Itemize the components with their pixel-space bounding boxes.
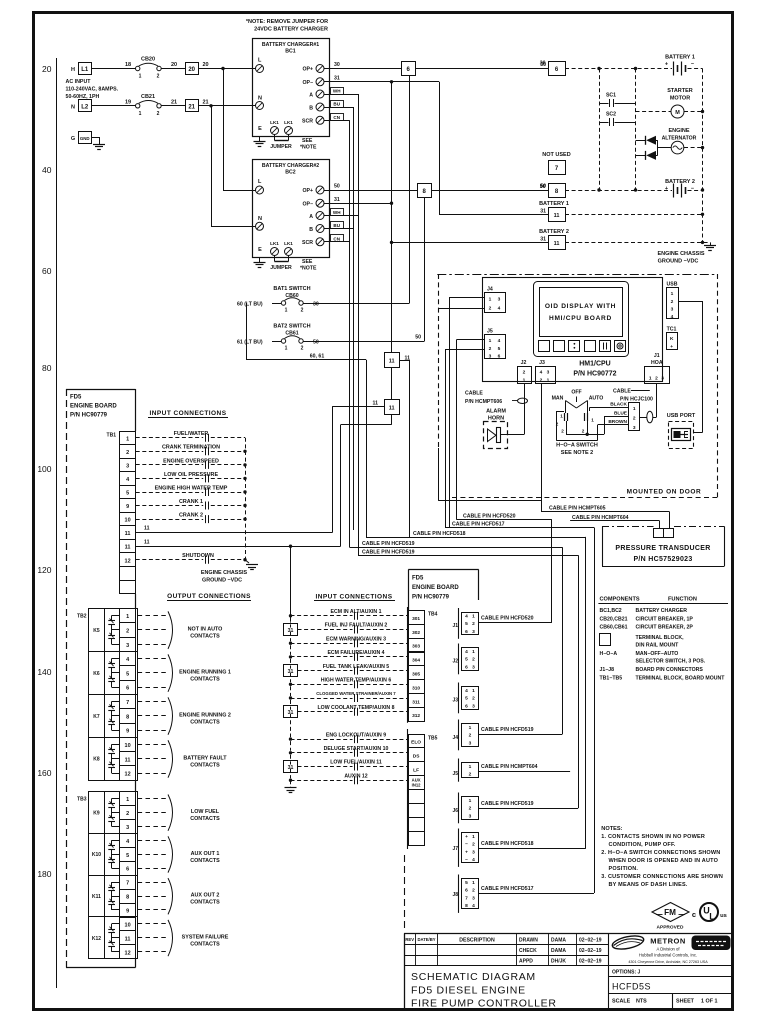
svg-text:USB: USB: [667, 282, 678, 288]
svg-text:B: B: [309, 227, 313, 233]
svg-text:ENGINE RUNNING 2: ENGINE RUNNING 2: [179, 712, 231, 718]
terminal block 7 not used: [542, 152, 570, 175]
svg-text:CABLE P/N HCMPT605: CABLE P/N HCMPT605: [549, 506, 606, 512]
svg-text:−: −: [691, 62, 694, 68]
terminal block TB5: [409, 735, 438, 846]
input wire FUEL INJ FAULT/AUXIN 2: [284, 623, 409, 636]
relay K8: [93, 744, 119, 773]
svg-text:5: 5: [126, 671, 129, 677]
svg-text:TC1: TC1: [667, 327, 677, 333]
svg-text:AC INPUT: AC INPUT: [66, 79, 92, 85]
svg-text:CABLE P/N HCFD519: CABLE P/N HCFD519: [362, 541, 415, 547]
contact bracket K11: [168, 878, 173, 914]
svg-text:DELUGE START/AUXIN 10: DELUGE START/AUXIN 10: [324, 746, 389, 752]
svg-text:311: 311: [412, 699, 420, 705]
svg-text:DS: DS: [413, 754, 420, 760]
svg-text:METRON: METRON: [650, 937, 686, 946]
svg-text:LK1: LK1: [284, 241, 293, 246]
svg-text:ALTERNATOR: ALTERNATOR: [662, 136, 697, 142]
svg-text:2: 2: [126, 811, 129, 817]
wire stub TB2 pin 9: [138, 730, 166, 732]
svg-text:*NOTE: *NOTE: [300, 266, 317, 272]
svg-text:310: 310: [412, 685, 420, 691]
svg-text:20: 20: [202, 62, 208, 68]
svg-text:LOW FUEL: LOW FUEL: [191, 809, 220, 815]
svg-text:50: 50: [540, 184, 546, 190]
terminal block TB2: [77, 608, 138, 780]
contact bracket K10: [168, 836, 173, 872]
svg-text:1: 1: [633, 406, 636, 412]
svg-text:H−O−A: H−O−A: [600, 651, 618, 657]
svg-text:12: 12: [125, 558, 131, 564]
svg-text:J7: J7: [452, 846, 458, 852]
wire L1 to CB20: [92, 68, 136, 70]
svg-text:WHEN DOOR IS OPENED AND IN AUT: WHEN DOOR IS OPENED AND IN AUTO: [609, 858, 719, 864]
svg-text:BATTERY CHARGER#1: BATTERY CHARGER#1: [262, 42, 319, 48]
wire BU BC2: [331, 222, 344, 229]
svg-text:OP−: OP−: [302, 201, 313, 207]
svg-text:3. CUSTOMER CONNECTIONS ARE SH: 3. CUSTOMER CONNECTIONS ARE SHOWN: [601, 874, 723, 880]
svg-text:ENGINE RUNNING 1: ENGINE RUNNING 1: [179, 669, 231, 675]
svg-text:L: L: [709, 912, 715, 922]
svg-text:5: 5: [498, 346, 501, 352]
svg-text:3: 3: [126, 463, 129, 469]
wire HOA left side loop (brown): [556, 411, 564, 413]
wire 30 to right: [415, 68, 548, 70]
svg-text:2: 2: [472, 842, 475, 848]
svg-text:ENGINE: ENGINE: [668, 128, 689, 134]
svg-text:CLOGGED WATER STRAINER/AUXIN 7: CLOGGED WATER STRAINER/AUXIN 7: [316, 691, 396, 696]
svg-text:305: 305: [412, 672, 420, 678]
svg-text:FUEL TANK LEAK/AUXIN 5: FUEL TANK LEAK/AUXIN 5: [323, 664, 389, 670]
terminal block 21: [186, 100, 199, 112]
svg-text:CABLE P/N HCFD519: CABLE P/N HCFD519: [481, 801, 534, 807]
svg-text:STARTER: STARTER: [667, 88, 693, 94]
svg-text:*NOTE: REMOVE JUMPER FOR: *NOTE: REMOVE JUMPER FOR: [246, 19, 328, 25]
svg-text:MAN: MAN: [552, 395, 564, 401]
svg-text:11: 11: [144, 526, 150, 532]
terminal block 20: [186, 63, 199, 75]
svg-text:OP−: OP−: [302, 80, 313, 86]
svg-text:180: 180: [37, 869, 51, 879]
terminal TB2 pin 7: [120, 695, 136, 709]
wire stub TB3 pin 10: [138, 923, 166, 925]
terminal TB2 pin 1: [120, 609, 136, 623]
terminal block TB3: [77, 792, 138, 959]
svg-text:J3: J3: [452, 698, 458, 704]
terminal TB2 pin 6: [120, 681, 136, 695]
pressure transducer: [602, 527, 725, 567]
svg-text:2: 2: [469, 733, 472, 739]
board edge TB5 bracket: [407, 729, 409, 849]
svg-text:SCALE: SCALE: [612, 999, 631, 1005]
terminal block 8 (left): [418, 184, 432, 198]
svg-text:6: 6: [465, 664, 468, 670]
input wire LOW OIL PRESSURE: [136, 472, 245, 483]
components/function table: [598, 597, 728, 682]
svg-text:4: 4: [472, 903, 475, 909]
ground BC1 E: [259, 136, 261, 141]
svg-text:20: 20: [42, 64, 52, 74]
svg-text:7: 7: [126, 700, 129, 706]
svg-text:3: 3: [547, 370, 550, 376]
svg-text:1: 1: [139, 74, 142, 80]
svg-text:J1: J1: [654, 353, 660, 359]
svg-text:G: G: [71, 136, 75, 142]
terminal TB3 pin 5: [120, 848, 136, 862]
svg-text:BY MEANS OF DASH LINES.: BY MEANS OF DASH LINES.: [609, 882, 688, 888]
svg-text:CABLE P/N HCMPT604: CABLE P/N HCMPT604: [481, 764, 538, 770]
svg-text:BROWN: BROWN: [608, 419, 627, 425]
selector switch H-O-A: [552, 389, 604, 433]
terminal TB3 pin 11: [120, 931, 136, 945]
terminal TB3 pin 7: [120, 876, 136, 890]
svg-text:BAT1 SWITCH: BAT1 SWITCH: [273, 286, 310, 292]
svg-text:1: 1: [469, 725, 472, 731]
svg-text:A Division of: A Division of: [656, 947, 680, 952]
svg-text:1: 1: [126, 797, 129, 803]
svg-text:2: 2: [126, 450, 129, 456]
svg-text:DATE/BY: DATE/BY: [417, 937, 435, 942]
svg-text:BU: BU: [333, 102, 340, 107]
svg-text:ENGINE CHASSIS: ENGINE CHASSIS: [201, 570, 248, 576]
svg-text:CRANK 1: CRANK 1: [179, 499, 203, 505]
svg-text:11: 11: [125, 545, 131, 551]
svg-text:FUEL INJ FAULT/AUXIN 2: FUEL INJ FAULT/AUXIN 2: [325, 623, 388, 629]
svg-text:12: 12: [125, 950, 131, 956]
input wire ECM FAILURE/AUXIN 4: [289, 650, 409, 661]
ground engine chassis (top): [710, 242, 712, 245]
svg-text:K5: K5: [93, 628, 100, 634]
svg-text:11: 11: [125, 531, 131, 537]
svg-text:LOW COOLANT TEMP/AUXIN 8: LOW COOLANT TEMP/AUXIN 8: [318, 705, 395, 711]
svg-text:11: 11: [125, 936, 131, 942]
svg-text:3: 3: [126, 825, 129, 831]
svg-text:BOARD PIN CONNECTORS: BOARD PIN CONNECTORS: [636, 667, 704, 673]
wire J1 down to terminals: [656, 383, 658, 417]
svg-text:K11: K11: [92, 894, 101, 900]
svg-text:CONTACTS: CONTACTS: [190, 858, 220, 864]
svg-text:1 OF 1: 1 OF 1: [701, 999, 717, 1005]
svg-text:1: 1: [472, 614, 475, 620]
svg-text:CHECK: CHECK: [519, 948, 537, 954]
svg-text:2: 2: [469, 806, 472, 812]
wire cable HCFD520: [478, 622, 552, 624]
svg-text:HMI/CPU BOARD: HMI/CPU BOARD: [549, 315, 612, 322]
svg-text:11: 11: [125, 757, 131, 763]
wire stub TB3 pin 5: [138, 854, 166, 856]
terminal L1: [71, 63, 91, 75]
svg-text:J5: J5: [487, 329, 493, 335]
cable marker HCMPT606: [518, 398, 528, 403]
svg-text:USB PORT: USB PORT: [667, 413, 696, 419]
svg-text:BC2: BC2: [285, 170, 295, 176]
svg-text:CABLE P/N HCFD519: CABLE P/N HCFD519: [362, 549, 415, 555]
connector J3: [452, 683, 478, 714]
wire WH BC1: [331, 88, 344, 95]
svg-text:DAMA: DAMA: [551, 948, 566, 954]
wire riser HCMPT605 to transducer: [669, 511, 671, 528]
svg-text:NTS: NTS: [636, 999, 647, 1005]
svg-text:18: 18: [125, 62, 131, 68]
wire stub TB3 pin 6: [138, 868, 166, 870]
svg-text:ENGINE CHASSIS: ENGINE CHASSIS: [657, 251, 704, 257]
svg-text:304: 304: [412, 658, 420, 664]
cable marker HCJC100: [647, 411, 653, 423]
part number: [609, 982, 734, 994]
svg-text:J5: J5: [452, 771, 458, 777]
svg-text:BC1: BC1: [285, 49, 295, 55]
wire CN BC1: [331, 114, 344, 121]
wire stub TB3 pin 1: [138, 798, 166, 800]
terminal block TB4: [409, 611, 438, 722]
terminal TB2 pin 4: [120, 652, 136, 666]
svg-text:5: 5: [465, 657, 468, 663]
svg-text:CN: CN: [333, 236, 340, 241]
svg-text:80: 80: [42, 363, 52, 373]
wire riser HCFD517 to J8: [594, 528, 596, 894]
circuit breaker CB20: [136, 57, 162, 80]
ground (AC input): [92, 137, 100, 139]
scale/sheet row: [612, 994, 717, 1010]
engine board FD5 (lower): [408, 570, 478, 611]
wire bus BU down: [353, 107, 355, 530]
svg-text:FD5: FD5: [70, 395, 82, 401]
svg-text:02−02−19: 02−02−19: [579, 959, 602, 965]
svg-text:6: 6: [126, 686, 129, 692]
svg-text:SYSTEM FAILURE: SYSTEM FAILURE: [182, 934, 229, 940]
svg-text:TB5: TB5: [428, 736, 438, 742]
svg-text:7: 7: [555, 166, 559, 172]
svg-text:100: 100: [37, 464, 51, 474]
svg-text:FM: FM: [664, 908, 676, 917]
svg-text:02−02−19: 02−02−19: [579, 948, 602, 954]
svg-text:2: 2: [561, 429, 564, 434]
svg-text:3: 3: [472, 895, 475, 901]
wire J5 pin2: [445, 349, 484, 351]
wire stub TB3 pin 2: [138, 812, 166, 814]
svg-text:J1−J8: J1−J8: [600, 667, 615, 673]
contact bracket K9: [168, 795, 173, 831]
svg-text:CABLE: CABLE: [465, 391, 483, 397]
svg-text:ENGINE HIGH WATER TEMP: ENGINE HIGH WATER TEMP: [155, 485, 228, 491]
svg-text:21: 21: [202, 99, 208, 105]
svg-text:SELECTOR SWITCH, 3 POS.: SELECTOR SWITCH, 3 POS.: [636, 659, 706, 665]
svg-text:31: 31: [288, 628, 294, 634]
svg-text:60, 61: 60, 61: [310, 354, 325, 360]
notes: [601, 826, 723, 888]
svg-text:+: +: [665, 62, 668, 68]
contactor SC2: [599, 112, 636, 127]
contact bracket K7: [168, 697, 173, 734]
battery 2: [665, 179, 695, 198]
svg-text:1: 1: [547, 378, 550, 384]
svg-text:TERMINAL BLOCK, BOARD MOUNT: TERMINAL BLOCK, BOARD MOUNT: [636, 676, 726, 682]
svg-text:4: 4: [498, 338, 501, 344]
svg-text:5: 5: [465, 621, 468, 627]
svg-text:J3: J3: [539, 360, 545, 366]
relay K5: [93, 616, 119, 645]
svg-text:DIN RAIL MOUNT: DIN RAIL MOUNT: [636, 643, 680, 649]
svg-text:MOUNTED ON DOOR: MOUNTED ON DOOR: [627, 489, 702, 496]
svg-text:J4: J4: [452, 735, 458, 741]
svg-text:HM1/CPU: HM1/CPU: [579, 361, 611, 368]
svg-text:Hubbell Industrial Controls, I: Hubbell Industrial Controls, Inc.: [639, 953, 697, 958]
svg-text:AUTO: AUTO: [589, 395, 604, 401]
svg-text:MOTOR: MOTOR: [670, 96, 690, 102]
svg-text:20: 20: [188, 67, 195, 73]
terminal block 6 (right): [540, 61, 566, 76]
svg-text:2: 2: [126, 628, 129, 634]
wire stub TB2 pin 4: [138, 658, 166, 660]
svg-text:31: 31: [288, 669, 294, 675]
svg-text:SCR: SCR: [302, 119, 313, 125]
svg-text:P/N HC90779: P/N HC90779: [70, 413, 108, 419]
svg-text:HOA: HOA: [651, 360, 663, 366]
battery charger BC1: [253, 39, 330, 137]
input wire CRANK 1: [136, 499, 245, 510]
revision table: [404, 934, 609, 966]
svg-text:−: −: [465, 858, 468, 863]
connector J1: [452, 608, 478, 639]
svg-text:NOTES:: NOTES:: [601, 826, 622, 832]
ruler line: [56, 58, 58, 988]
connector USB: [667, 282, 679, 321]
wire J5 pin1: [457, 339, 484, 341]
input wire LOW FUEL/AUXIN 11: [284, 760, 409, 773]
wire bus 30 down to CB60: [409, 75, 411, 303]
svg-text:BLUE: BLUE: [614, 411, 628, 417]
svg-text:7: 7: [126, 881, 129, 887]
svg-text:4: 4: [465, 649, 468, 655]
svg-text:BC1,BC2: BC1,BC2: [600, 608, 622, 614]
svg-text:SEE NOTE 2: SEE NOTE 2: [561, 450, 593, 456]
relay K11: [92, 882, 120, 910]
svg-text:IN12: IN12: [412, 783, 422, 788]
terminal TB3 pin 9: [120, 904, 136, 918]
svg-text:HORN: HORN: [488, 416, 504, 422]
metron logo block: [611, 934, 730, 964]
svg-text:BATTERY CHARGER#2: BATTERY CHARGER#2: [262, 163, 319, 169]
svg-text:CONTACTS: CONTACTS: [190, 633, 220, 639]
svg-text:DH/JK: DH/JK: [551, 959, 566, 965]
wire riser HCFD519 to J4: [562, 547, 564, 734]
wire HOA black: [589, 407, 591, 411]
svg-text:LK1: LK1: [270, 241, 279, 246]
svg-text:TB1−TB5: TB1−TB5: [600, 676, 623, 682]
svg-text:1: 1: [560, 414, 563, 419]
svg-text:11: 11: [554, 241, 560, 247]
note: remove jumper: [246, 19, 328, 33]
wire SC left vertical: [599, 69, 601, 191]
wire cable HCMPT604: [478, 771, 570, 773]
svg-text:SC2: SC2: [606, 112, 616, 118]
svg-text:2: 2: [633, 416, 636, 422]
svg-text:2: 2: [671, 299, 674, 305]
svg-text:4: 4: [540, 370, 543, 376]
wire J4 pin2: [438, 308, 484, 310]
wire 11 riser A: [332, 406, 334, 532]
svg-text:1: 1: [472, 688, 475, 694]
svg-text:K6: K6: [93, 671, 100, 677]
svg-text:60 (LT BU): 60 (LT BU): [237, 302, 263, 308]
svg-text:4: 4: [126, 657, 130, 663]
svg-text:2: 2: [523, 370, 526, 376]
svg-text:ENGINE BOARD: ENGINE BOARD: [412, 585, 459, 591]
svg-text:TB1: TB1: [107, 433, 117, 439]
svg-text:SEE: SEE: [302, 259, 313, 265]
svg-text:H: H: [71, 67, 75, 73]
wire 11 jog to riser: [400, 360, 410, 362]
svg-text:10: 10: [125, 518, 131, 524]
terminal TB3 pin 12: [120, 945, 136, 959]
input dashed bus TB1: [245, 438, 247, 560]
terminal TB2 pin 11: [120, 752, 136, 766]
battery 1: [665, 55, 695, 76]
svg-text:*NOTE: *NOTE: [300, 145, 317, 151]
svg-text:NOT IN AUTO: NOT IN AUTO: [188, 626, 223, 632]
svg-text:OID DISPLAY WITH: OID DISPLAY WITH: [545, 303, 616, 310]
svg-text:50: 50: [415, 335, 421, 341]
svg-text:OP+: OP+: [302, 188, 313, 194]
terminal TB3 pin 6: [120, 862, 136, 876]
starter motor: [636, 88, 705, 118]
svg-text:8: 8: [555, 189, 559, 195]
diode D2: [636, 151, 658, 160]
svg-text:BATTERY 2: BATTERY 2: [665, 179, 695, 185]
wire stub TB2 pin 3: [138, 644, 166, 646]
svg-text:J8: J8: [452, 892, 458, 898]
svg-text:SCHEMATIC DIAGRAM: SCHEMATIC DIAGRAM: [411, 971, 536, 983]
svg-text:1: 1: [489, 297, 492, 303]
svg-text:61 (LT BU): 61 (LT BU): [237, 340, 263, 346]
svg-text:JUMPER: JUMPER: [270, 265, 292, 271]
svg-text:APPROVED: APPROVED: [657, 925, 684, 931]
circuit breaker CB21: [136, 94, 162, 117]
relay K6: [93, 659, 119, 688]
wire riser HCFD518 to J7: [585, 537, 587, 848]
terminal block black/blue/brown: [608, 402, 639, 432]
svg-text:FUNCTION: FUNCTION: [668, 597, 697, 603]
wire USB to USB port: [679, 301, 703, 303]
svg-text:3: 3: [469, 740, 472, 746]
svg-text:BATTERY 1: BATTERY 1: [665, 55, 695, 61]
svg-text:CABLE P/N HCFD520: CABLE P/N HCFD520: [463, 514, 516, 520]
relay K7: [93, 701, 119, 730]
svg-text:2: 2: [472, 888, 475, 894]
wire box6 to battery1 (dashed): [565, 68, 672, 70]
terminal GND: [71, 132, 92, 144]
node wire21/BC2 junction: [209, 104, 212, 107]
title block: [404, 934, 733, 1010]
svg-text:LK1: LK1: [284, 120, 293, 125]
svg-text:OP+: OP+: [302, 67, 313, 73]
svg-text:31: 31: [334, 76, 340, 82]
wire stub TB2 pin 10: [138, 744, 166, 746]
svg-text:4: 4: [465, 688, 468, 694]
contact bracket K12: [168, 920, 173, 956]
wire BU BC1: [331, 101, 344, 108]
svg-text:10: 10: [125, 922, 131, 928]
svg-text:301: 301: [412, 616, 420, 622]
relay K12: [92, 924, 120, 952]
wire stub TB3 pin 11: [138, 937, 166, 939]
svg-text:ENGINE BOARD: ENGINE BOARD: [70, 404, 117, 410]
svg-text:6: 6: [498, 354, 501, 360]
svg-text:50: 50: [313, 340, 319, 346]
wire HOA common jog (blue): [566, 421, 568, 434]
terminal block 6 (left): [402, 62, 416, 76]
